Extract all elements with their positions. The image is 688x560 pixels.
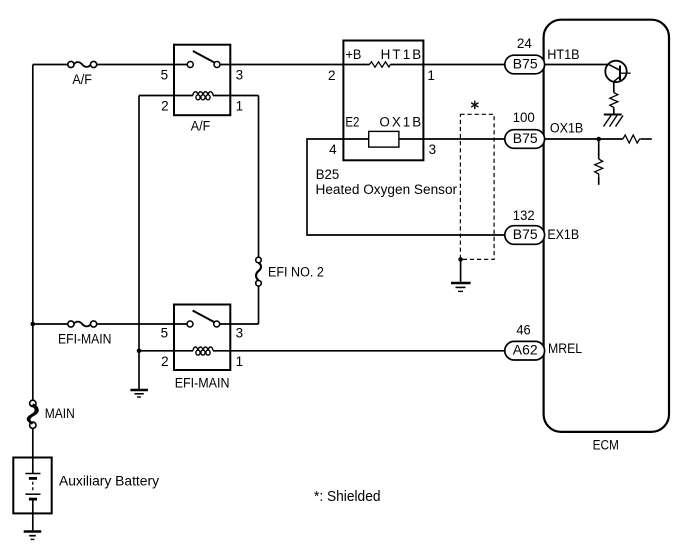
svg-text:5: 5 (161, 326, 169, 341)
svg-text:Heated Oxygen Sensor: Heated Oxygen Sensor (316, 182, 458, 197)
svg-text:OX1B: OX1B (379, 114, 421, 129)
svg-text:2: 2 (328, 68, 336, 83)
svg-text:5: 5 (161, 68, 169, 83)
svg-text:A62: A62 (513, 343, 538, 358)
svg-text:1: 1 (427, 68, 435, 83)
svg-text:24: 24 (517, 36, 533, 51)
svg-text:4: 4 (329, 142, 337, 157)
svg-text:3: 3 (429, 142, 437, 157)
svg-text:E2: E2 (345, 114, 359, 129)
svg-text:2: 2 (161, 354, 169, 369)
svg-text:EFI-MAIN: EFI-MAIN (58, 332, 112, 347)
svg-text:HT1B: HT1B (547, 47, 579, 62)
svg-text:Auxiliary Battery: Auxiliary Battery (59, 473, 159, 488)
svg-text:1: 1 (236, 354, 244, 369)
svg-text:100: 100 (513, 110, 535, 125)
svg-text:MREL: MREL (548, 341, 582, 356)
svg-text:132: 132 (513, 208, 535, 223)
svg-text:ECM: ECM (593, 437, 619, 452)
svg-text:EX1B: EX1B (547, 227, 579, 242)
svg-text:3: 3 (236, 68, 244, 83)
svg-text:46: 46 (516, 323, 530, 338)
svg-text:A/F: A/F (72, 72, 92, 87)
svg-text:B25: B25 (316, 167, 340, 182)
svg-text:MAIN: MAIN (45, 406, 75, 421)
svg-text:B75: B75 (513, 227, 538, 242)
svg-text:EFI-MAIN: EFI-MAIN (175, 376, 230, 391)
svg-text:*: Shielded: *: Shielded (314, 488, 381, 505)
svg-text:1: 1 (236, 98, 244, 113)
svg-text:EFI NO. 2: EFI NO. 2 (268, 264, 324, 279)
svg-text:OX1B: OX1B (550, 121, 583, 136)
svg-text:+B: +B (346, 47, 362, 62)
svg-text:B75: B75 (513, 131, 538, 146)
svg-text:A/F: A/F (191, 119, 210, 134)
svg-text:2: 2 (161, 98, 169, 113)
svg-text:B75: B75 (513, 57, 538, 72)
svg-text:3: 3 (236, 326, 244, 341)
